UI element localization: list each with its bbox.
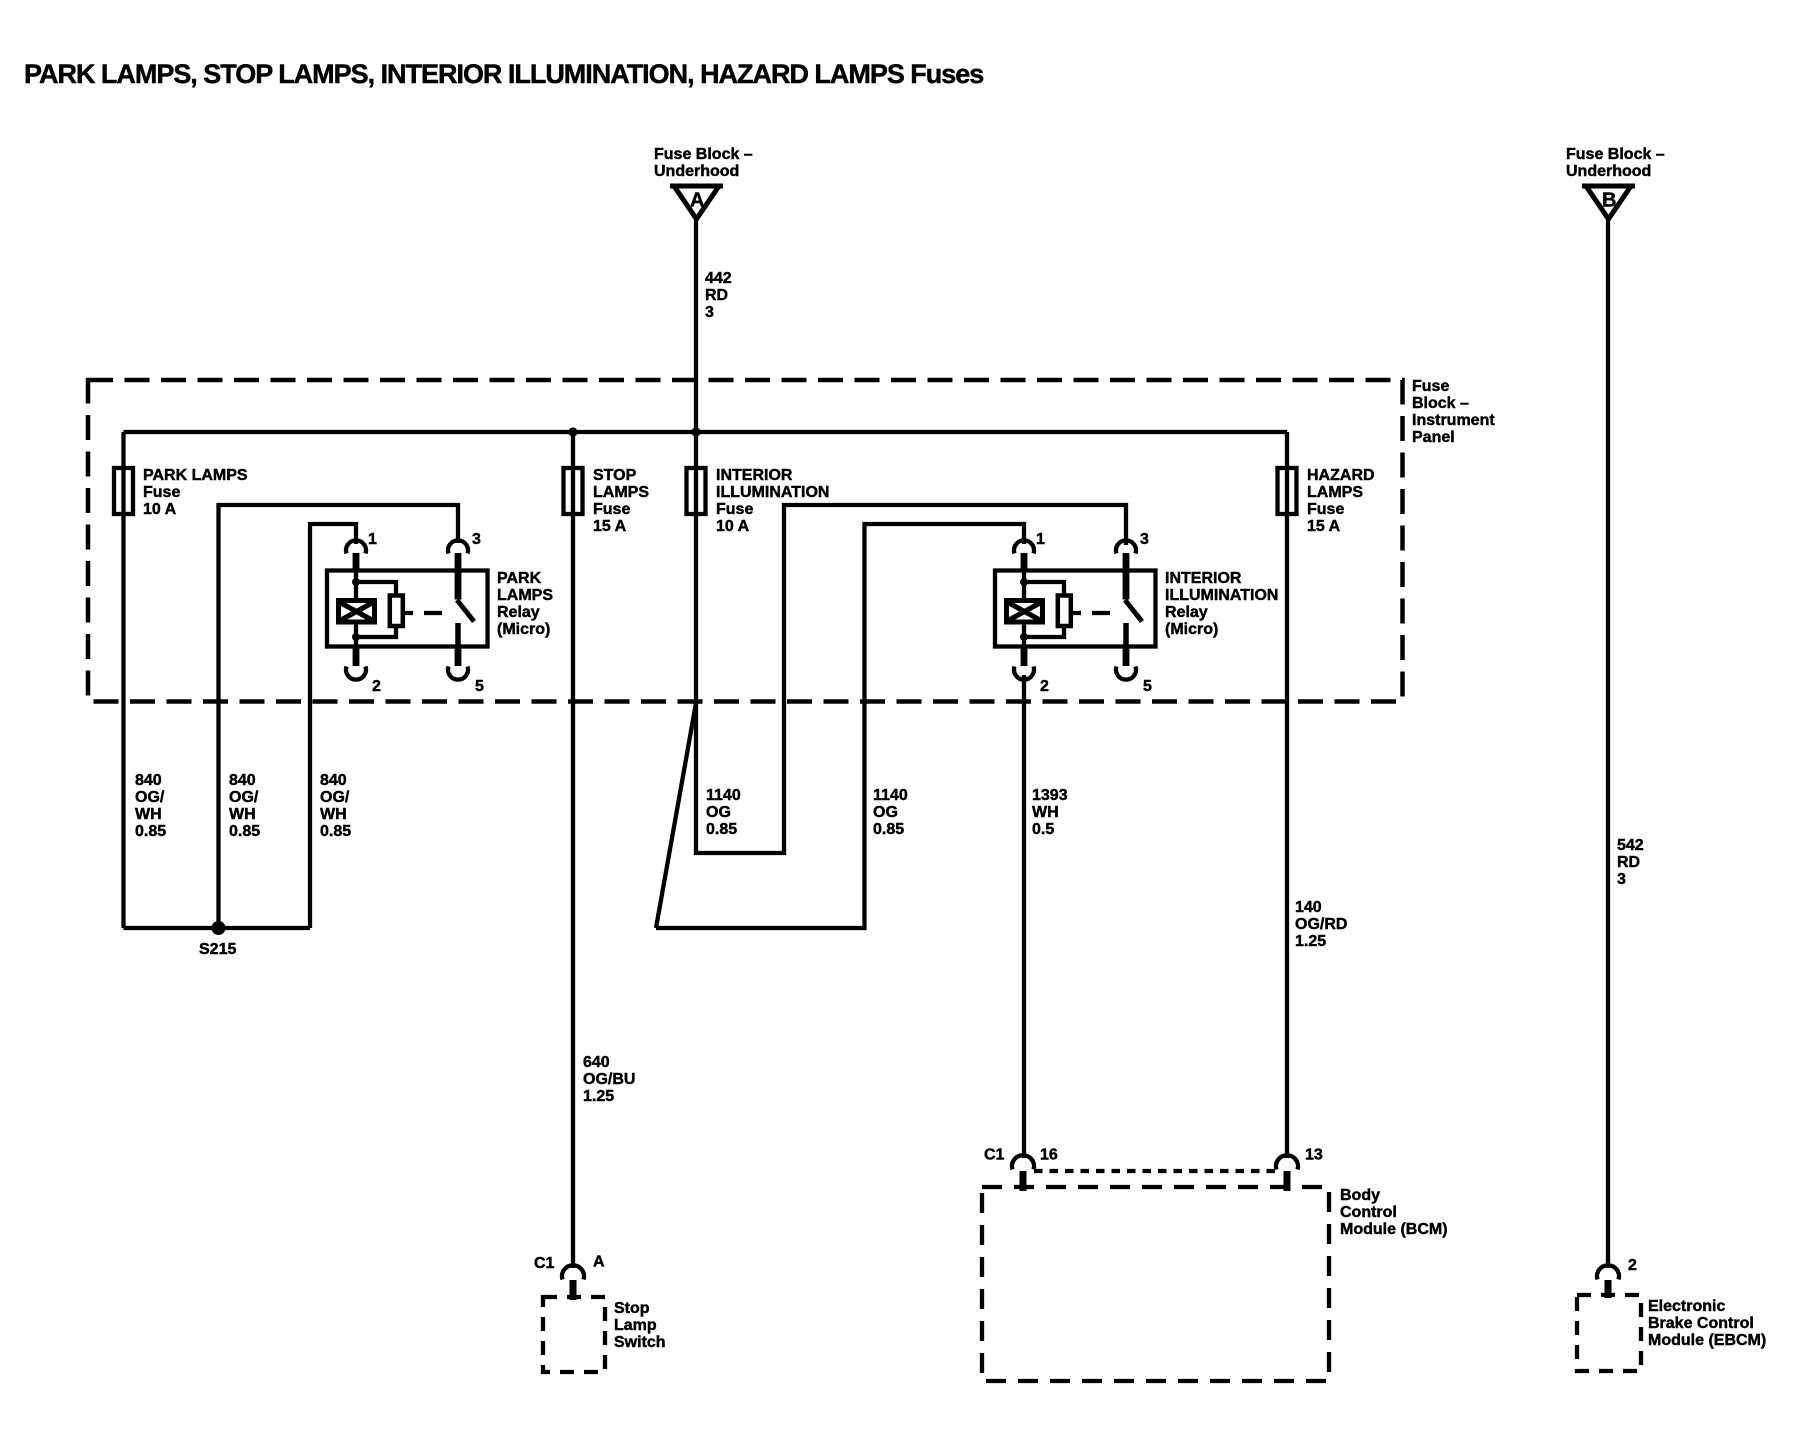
svg-text:0.85: 0.85 — [229, 823, 260, 840]
fuse F3 INTERIOR ILLUMINATION 10A — [687, 468, 706, 514]
EBCM dashed box — [1577, 1295, 1641, 1371]
svg-text:Electronic: Electronic — [1648, 1298, 1725, 1315]
svg-text:13: 13 — [1305, 1147, 1323, 1164]
svg-text:Fuse: Fuse — [593, 501, 630, 518]
svg-text:1: 1 — [368, 531, 377, 548]
svg-text:840: 840 — [135, 772, 162, 789]
svg-text:0.5: 0.5 — [1032, 821, 1054, 838]
relay U2 coil symbol — [1007, 601, 1043, 623]
relay U1 resistor loop — [356, 582, 396, 637]
svg-text:Relay: Relay — [1165, 604, 1208, 621]
relay U1 resistor — [390, 596, 403, 627]
svg-text:RD: RD — [705, 287, 728, 304]
BCM internal dotted line — [1034, 1169, 1276, 1173]
svg-text:Fuse: Fuse — [1412, 378, 1449, 395]
svg-text:A: A — [690, 190, 704, 212]
fuse F1 PARK LAMPS 10A — [114, 468, 133, 514]
svg-text:840: 840 — [229, 772, 256, 789]
svg-text:2: 2 — [1040, 678, 1049, 695]
svg-text:A: A — [593, 1254, 605, 1271]
svg-text:1140: 1140 — [873, 787, 908, 804]
svg-text:LAMPS: LAMPS — [1307, 484, 1363, 501]
svg-text:OG/RD: OG/RD — [1295, 916, 1347, 933]
svg-text:OG/: OG/ — [229, 789, 259, 806]
svg-text:OG/BU: OG/BU — [583, 1071, 635, 1088]
svg-text:Stop: Stop — [614, 1300, 650, 1317]
wire hazard lamps fuse branch — [1285, 432, 1289, 1158]
svg-text:140: 140 — [1295, 899, 1322, 916]
svg-text:5: 5 — [475, 678, 484, 695]
svg-text:Fuse: Fuse — [1307, 501, 1344, 518]
relay U2 actuator dashes — [1072, 611, 1110, 615]
relay U1 pin 2 arc — [346, 667, 366, 680]
svg-text:Fuse: Fuse — [716, 501, 753, 518]
svg-text:2: 2 — [372, 678, 381, 695]
svg-text:1140: 1140 — [706, 787, 741, 804]
svg-text:PARK LAMPS, STOP LAMPS, INTERI: PARK LAMPS, STOP LAMPS, INTERIOR ILLUMIN… — [24, 59, 983, 89]
svg-text:Fuse Block –: Fuse Block – — [1566, 146, 1665, 163]
svg-text:Fuse Block –: Fuse Block – — [654, 146, 753, 163]
svg-text:INTERIOR: INTERIOR — [1165, 570, 1242, 587]
relay U1 switch — [457, 600, 474, 622]
svg-text:Fuse: Fuse — [143, 484, 180, 501]
svg-text:0.85: 0.85 — [135, 823, 166, 840]
stop lamp switch dashed box — [543, 1297, 605, 1372]
wire relay K2 pin2 to BCM pin16 — [1022, 675, 1026, 1158]
wire 442 RD from triangle A to bus — [694, 220, 698, 432]
relay U2 resistor loop — [1024, 582, 1064, 637]
svg-text:WH: WH — [229, 806, 256, 823]
svg-text:Block –: Block – — [1412, 395, 1469, 412]
svg-text:15 A: 15 A — [593, 518, 627, 535]
svg-text:3: 3 — [1140, 531, 1149, 548]
svg-text:3: 3 — [1617, 871, 1626, 888]
svg-text:LAMPS: LAMPS — [497, 587, 553, 604]
svg-text:1: 1 — [1036, 531, 1045, 548]
svg-text:ILLUMINATION: ILLUMINATION — [1165, 587, 1278, 604]
relay U2 INTERIOR ILLUMINATION Relay (Micro) — [995, 531, 1278, 695]
BCM dashed box — [982, 1187, 1329, 1381]
svg-text:RD: RD — [1617, 854, 1640, 871]
relay U1 pin 5 arc — [448, 667, 468, 680]
diagonal wire from interior fuse to relay K2 coil branch — [656, 703, 696, 928]
svg-text:640: 640 — [583, 1054, 610, 1071]
relay U1 pin 1 arc — [346, 540, 366, 553]
svg-text:Module (EBCM): Module (EBCM) — [1648, 1332, 1766, 1349]
svg-text:5: 5 — [1143, 678, 1152, 695]
wire relay K2 pin1 coil branch — [656, 524, 1024, 928]
svg-text:INTERIOR: INTERIOR — [716, 467, 793, 484]
svg-text:3: 3 — [472, 531, 481, 548]
junction dot at 442 feed — [691, 427, 700, 436]
wire stop lamps fuse branch — [571, 432, 575, 1268]
svg-text:542: 542 — [1617, 837, 1644, 854]
svg-text:C1: C1 — [534, 1255, 555, 1272]
relay U1 coil symbol — [339, 601, 375, 623]
relay U2 pin 5 arc — [1116, 667, 1136, 680]
svg-text:OG: OG — [706, 804, 731, 821]
svg-text:WH: WH — [1032, 804, 1059, 821]
svg-text:WH: WH — [320, 806, 347, 823]
svg-text:840: 840 — [320, 772, 347, 789]
relay U1 coil wire — [354, 571, 358, 647]
svg-text:Panel: Panel — [1412, 429, 1455, 446]
relay U2 box — [995, 571, 1156, 647]
svg-text:15 A: 15 A — [1307, 518, 1341, 535]
svg-text:0.85: 0.85 — [320, 823, 351, 840]
EBCM connector pin 2 — [1597, 1265, 1619, 1279]
junction dot at stop lamps fuse tap — [568, 427, 577, 436]
svg-text:16: 16 — [1040, 1147, 1058, 1164]
relay U2 coil junction dots — [1020, 578, 1028, 586]
relay U2 resistor — [1058, 596, 1071, 627]
main bus wire — [124, 430, 1288, 434]
svg-text:OG: OG — [873, 804, 898, 821]
svg-text:Lamp: Lamp — [614, 1317, 657, 1334]
svg-text:10 A: 10 A — [143, 501, 177, 518]
wire S215 splice bar — [124, 926, 311, 930]
svg-text:1393: 1393 — [1032, 787, 1068, 804]
svg-text:2: 2 — [1628, 1257, 1637, 1274]
svg-text:(Micro): (Micro) — [1165, 621, 1218, 638]
svg-text:PARK: PARK — [497, 570, 542, 587]
svg-text:Control: Control — [1340, 1204, 1397, 1221]
BCM connector pin C1-16 — [1012, 1155, 1034, 1169]
svg-text:OG/: OG/ — [320, 789, 350, 806]
relay U1 actuator dashes — [404, 611, 442, 615]
relay U2 coil wire — [1022, 571, 1026, 647]
svg-text:S215: S215 — [199, 941, 236, 958]
svg-text:442: 442 — [705, 270, 732, 287]
wire relay K1 pin1 branch — [310, 524, 356, 928]
svg-text:Relay: Relay — [497, 604, 540, 621]
svg-text:OG/: OG/ — [135, 789, 165, 806]
svg-text:Underhood: Underhood — [1566, 163, 1651, 180]
splice S215 — [212, 921, 226, 935]
wire relay K1 pin3 to S215 branch — [219, 505, 459, 928]
relay U2 pin 2 arc — [1014, 667, 1034, 680]
svg-text:Switch: Switch — [614, 1334, 666, 1351]
svg-text:Brake Control: Brake Control — [1648, 1315, 1754, 1332]
fuse F2 STOP LAMPS 15A — [564, 468, 583, 514]
svg-text:0.85: 0.85 — [873, 821, 904, 838]
svg-text:B: B — [1602, 190, 1616, 212]
wire 542 RD from triangle B to EBCM — [1606, 220, 1610, 1268]
wire interior illumination fuse branch — [696, 432, 1126, 853]
connector triangle A — [670, 186, 723, 219]
stop lamp switch connector pin C1-A — [562, 1265, 584, 1279]
fuse block instrument panel dashed box — [88, 380, 1403, 702]
relay U1 coil junction dots — [352, 578, 360, 586]
wire park lamps fuse branch — [121, 432, 125, 928]
relay U2 switch — [1125, 600, 1142, 622]
svg-text:Underhood: Underhood — [654, 163, 739, 180]
connector triangle B — [1582, 186, 1635, 219]
svg-text:Module (BCM): Module (BCM) — [1340, 1221, 1448, 1238]
svg-text:1.25: 1.25 — [583, 1088, 614, 1105]
relay U2 pin 1 arc — [1014, 540, 1034, 553]
svg-text:(Micro): (Micro) — [497, 621, 550, 638]
svg-text:3: 3 — [705, 304, 714, 321]
svg-text:LAMPS: LAMPS — [593, 484, 649, 501]
svg-text:WH: WH — [135, 806, 162, 823]
svg-text:PARK LAMPS: PARK LAMPS — [143, 467, 248, 484]
svg-text:0.85: 0.85 — [706, 821, 737, 838]
svg-text:ILLUMINATION: ILLUMINATION — [716, 484, 829, 501]
relay U1 box — [327, 571, 488, 647]
BCM connector pin C1-13 — [1276, 1155, 1298, 1169]
fuse F4 HAZARD LAMPS 15A — [1278, 468, 1297, 514]
relay U1 PARK LAMPS Relay (Micro) — [327, 531, 553, 695]
svg-text:1.25: 1.25 — [1295, 933, 1326, 950]
svg-text:C1: C1 — [984, 1147, 1005, 1164]
svg-text:10 A: 10 A — [716, 518, 750, 535]
relay U1 pin 3 arc — [448, 540, 468, 553]
svg-text:Instrument: Instrument — [1412, 412, 1495, 429]
relay U2 pin 3 arc — [1116, 540, 1136, 553]
svg-text:Body: Body — [1340, 1187, 1380, 1204]
svg-text:HAZARD: HAZARD — [1307, 467, 1375, 484]
svg-text:STOP: STOP — [593, 467, 637, 484]
